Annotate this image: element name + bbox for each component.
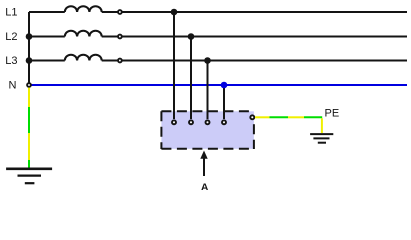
svg-text:L3: L3 — [5, 55, 17, 67]
svg-text:L1: L1 — [5, 6, 17, 18]
svg-text:PE: PE — [325, 108, 340, 120]
svg-text:A: A — [201, 182, 209, 190]
svg-text:N: N — [9, 80, 17, 92]
svg-text:L2: L2 — [5, 31, 17, 43]
